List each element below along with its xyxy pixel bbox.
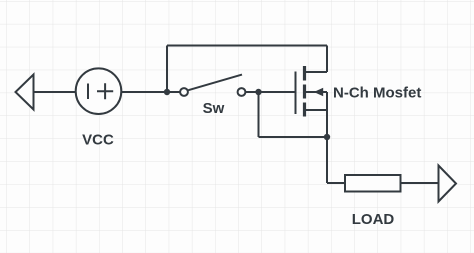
mosfet M1 gate line [295, 72, 297, 115]
node A junction dot [164, 89, 170, 95]
svg-text:Sw: Sw [203, 100, 225, 117]
svg-text:LOAD: LOAD [352, 211, 395, 228]
wire switch to gate [246, 91, 295, 93]
port P1 (input terminal triangle) [16, 75, 34, 110]
mosfet M1 body lead [306, 91, 327, 93]
node C junction dot [324, 134, 330, 140]
mosfet M1 drain lead [306, 71, 327, 73]
wire node to resistor [327, 182, 345, 184]
mosfet M1 drain bar [303, 66, 306, 81]
wire VCC to node A [121, 91, 179, 93]
port P2 (output terminal triangle) [439, 166, 457, 202]
switch SW1 blade [188, 75, 242, 91]
wire node A up [166, 46, 168, 93]
mosfet M1 source lead [306, 109, 327, 111]
resistor R1 body [345, 175, 401, 192]
node B junction dot [255, 89, 261, 95]
wire node B down [258, 92, 260, 137]
mosfet M1 arrow [314, 88, 323, 97]
mosfet M1 source bar [303, 103, 306, 117]
wire VCC to port [34, 91, 77, 93]
wire resistor to port [401, 182, 439, 184]
V1 minus mark [87, 84, 89, 100]
wire top rail [167, 45, 327, 47]
switch SW1 left contact [180, 88, 188, 96]
wire drain drop [326, 46, 328, 73]
V1 plus mark [97, 83, 113, 99]
mosfet M1 body bar [303, 85, 306, 99]
mosfet M1 body-source join [326, 92, 328, 137]
wire source node down [326, 137, 328, 183]
svg-text:N-Ch Mosfet: N-Ch Mosfet [333, 85, 421, 102]
switch SW1 right contact [238, 88, 246, 96]
svg-text:VCC: VCC [82, 132, 114, 149]
wire bottom run [259, 136, 328, 138]
voltage source V1 body [76, 68, 122, 114]
